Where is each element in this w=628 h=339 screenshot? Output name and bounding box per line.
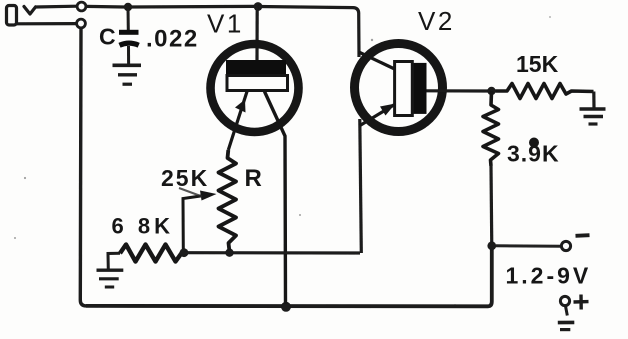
junction: battery tap node xyxy=(487,241,496,250)
svg-text:6 8K: 6 8K xyxy=(112,214,174,239)
ink blob on 9 xyxy=(529,138,539,148)
junction: 6.8K / wiper node xyxy=(180,248,189,257)
junction: V2 output node xyxy=(487,87,495,95)
transistor V1 emitter line with arrow xyxy=(228,92,247,151)
minus sign xyxy=(576,233,590,237)
paper speckles xyxy=(14,16,551,306)
ground (left, at 6.8K) xyxy=(97,270,124,287)
transistor V2 upper-left electrode line xyxy=(359,52,395,69)
resistor 6.8K (horizontal zigzag) xyxy=(120,245,182,262)
wire: left rail down xyxy=(80,28,86,306)
transistor V1 envelope xyxy=(211,44,299,132)
jack terminal (tip, open circle) xyxy=(77,2,86,11)
junction: V1 input tap node xyxy=(254,2,263,11)
junction: capacitor tap node xyxy=(124,3,132,11)
wire: jack tip to input terminal xyxy=(35,5,77,9)
wire: bottom rail xyxy=(86,249,492,306)
jack terminal (sleeve, open circle) xyxy=(77,19,86,28)
transistor V2 output lead to the right xyxy=(426,89,488,92)
wire: top rail, terminal to C tap xyxy=(86,5,125,9)
stray scan stroke near wiper xyxy=(179,188,202,197)
transistor V2 envelope xyxy=(355,44,443,132)
transistor V2 plate bar (filled) xyxy=(412,63,426,114)
svg-text:V2: V2 xyxy=(418,6,455,36)
pot wiper arrow xyxy=(183,196,204,250)
input jack J1 (phone plug body) xyxy=(7,6,17,26)
resistor 3.9K (vertical zigzag) xyxy=(483,91,499,166)
svg-text:25K: 25K xyxy=(161,165,209,191)
wire: 15K to ground stem xyxy=(592,92,595,109)
svg-text:V1: V1 xyxy=(207,9,244,39)
wire: V2 left rail down to bias wire corner xyxy=(360,119,362,253)
resistor 15K (horizontal zigzag) xyxy=(496,84,594,99)
ground (right of 15K) xyxy=(580,109,606,124)
ground (below C) xyxy=(113,65,142,84)
wire: ground stem to 6.8K xyxy=(108,253,120,270)
transistor V2 emitter line with arrow xyxy=(360,105,395,126)
wire: bias line from 6.8K junction to V2 rail xyxy=(184,251,360,255)
battery minus terminal (open circle) xyxy=(561,241,570,250)
wire: top rail, V1 tap to right corner and down to V2 xyxy=(258,7,359,58)
transistor V2 grid box (open) xyxy=(395,62,413,116)
ground (battery plus) xyxy=(558,322,575,329)
jack tip contact (check mark) xyxy=(24,7,36,15)
wire: 3.9K down to battery node xyxy=(489,166,493,248)
wire: top rail, C tap to V1 tap xyxy=(128,5,254,9)
capacitor C lead from top rail xyxy=(127,7,130,30)
svg-text:.022: .022 xyxy=(146,26,199,53)
junction: pot bottom node xyxy=(225,249,233,257)
svg-text:1.2-9V: 1.2-9V xyxy=(506,263,592,289)
transistor V1 grid box (open) xyxy=(227,76,288,91)
svg-text:C: C xyxy=(99,24,116,50)
plus sign xyxy=(574,295,589,310)
transistor V1 lead from top rail xyxy=(255,7,258,62)
wire: plus terminal to ground xyxy=(566,306,568,316)
junction: emitter/bottom-rail node xyxy=(281,302,291,312)
svg-text:15K: 15K xyxy=(516,51,559,77)
capacitor C bottom plate (curved) xyxy=(120,43,139,45)
transistor V1 plate bar (filled) xyxy=(226,60,286,75)
wire: battery minus lead xyxy=(496,244,561,247)
transistor V1 collector line down to bottom rail xyxy=(265,92,286,305)
wire: jack sleeve to sleeve terminal xyxy=(17,22,77,25)
capacitor C top plate xyxy=(119,30,139,35)
capacitor C lower lead xyxy=(127,46,130,65)
battery plus terminal (open circle) xyxy=(560,296,569,305)
svg-text:R: R xyxy=(245,165,262,192)
potentiometer R 25K (vertical zigzag) xyxy=(219,150,237,250)
